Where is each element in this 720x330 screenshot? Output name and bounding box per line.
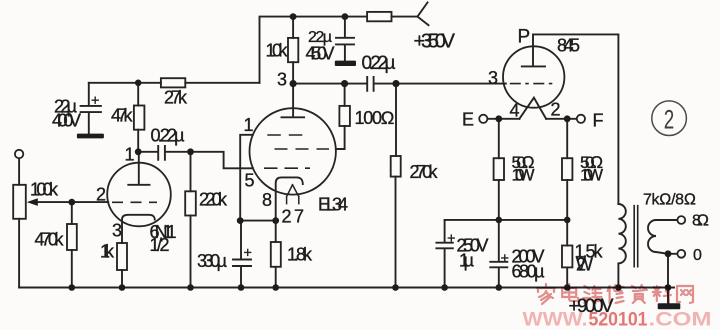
- svg-text:1µ: 1µ: [459, 251, 474, 271]
- svg-text:2: 2: [551, 100, 561, 120]
- svg-text:330µ: 330µ: [197, 251, 227, 271]
- svg-text:1k: 1k: [100, 242, 115, 262]
- svg-text:2: 2: [664, 105, 675, 135]
- svg-text:1.8k: 1.8k: [287, 245, 313, 265]
- svg-text:1/2: 1/2: [150, 235, 170, 255]
- svg-text:3: 3: [112, 221, 122, 241]
- svg-text:1: 1: [244, 115, 254, 135]
- svg-text:2: 2: [96, 185, 106, 205]
- svg-text:2 7: 2 7: [282, 207, 305, 227]
- svg-text:47k: 47k: [111, 106, 134, 126]
- svg-text:.COM: .COM: [649, 310, 712, 330]
- svg-text:4: 4: [510, 101, 520, 121]
- svg-text:470k: 470k: [35, 230, 65, 250]
- svg-text:1: 1: [125, 145, 135, 165]
- svg-text:5: 5: [245, 171, 255, 191]
- svg-text:+350V: +350V: [414, 31, 456, 53]
- svg-text:8: 8: [262, 190, 272, 210]
- svg-text:100Ω: 100Ω: [355, 108, 395, 128]
- svg-text:520101: 520101: [589, 310, 648, 330]
- svg-text:3: 3: [277, 70, 287, 90]
- svg-text:100k: 100k: [30, 180, 59, 200]
- svg-text:E: E: [462, 110, 474, 130]
- svg-text:450V: 450V: [306, 44, 335, 64]
- svg-text:2W: 2W: [576, 255, 593, 275]
- svg-text:7kΩ/8Ω: 7kΩ/8Ω: [643, 192, 696, 209]
- svg-text:WWW.: WWW.: [523, 310, 588, 330]
- svg-text:0: 0: [693, 247, 702, 264]
- svg-text:8Ω: 8Ω: [692, 213, 709, 230]
- svg-text:10W: 10W: [580, 166, 603, 185]
- svg-text:845: 845: [557, 36, 580, 56]
- svg-text:270k: 270k: [410, 162, 439, 182]
- svg-text:3: 3: [488, 68, 498, 88]
- svg-text:EL34: EL34: [318, 195, 348, 215]
- svg-text:680µ: 680µ: [512, 262, 545, 282]
- svg-text:10W: 10W: [512, 166, 535, 185]
- svg-text:P: P: [518, 27, 531, 48]
- svg-text:0.22µ: 0.22µ: [362, 53, 396, 74]
- svg-text:27k: 27k: [164, 88, 188, 108]
- svg-text:0.22µ: 0.22µ: [151, 126, 185, 146]
- svg-text:10k: 10k: [266, 41, 289, 61]
- svg-text:F: F: [593, 111, 604, 131]
- svg-text:400V: 400V: [52, 111, 81, 131]
- svg-text:220k: 220k: [199, 190, 228, 210]
